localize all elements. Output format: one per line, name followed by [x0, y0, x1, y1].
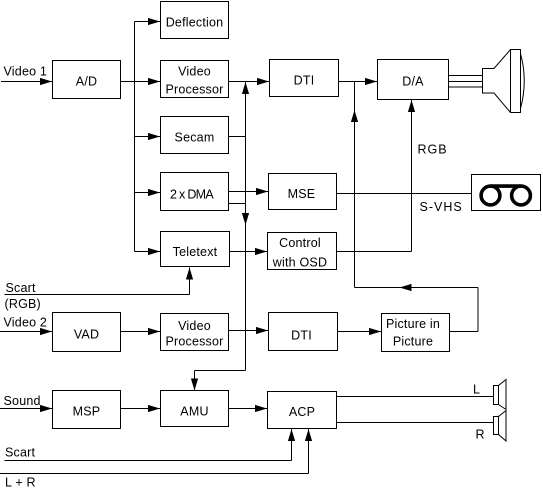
svg-text:MSE: MSE	[288, 187, 316, 201]
svg-text:RGB: RGB	[418, 143, 448, 157]
svg-text:L: L	[473, 383, 480, 397]
svg-text:Scart: Scart	[6, 281, 37, 295]
svg-text:ACP: ACP	[289, 405, 315, 419]
svg-text:Video: Video	[178, 65, 211, 79]
svg-text:Picture: Picture	[393, 335, 433, 349]
svg-text:Processor: Processor	[165, 83, 223, 97]
svg-text:Video 1: Video 1	[4, 65, 48, 79]
svg-text:L + R: L + R	[5, 476, 36, 489]
svg-text:AMU: AMU	[180, 405, 208, 419]
svg-text:Sound: Sound	[4, 394, 41, 408]
svg-text:with OSD: with OSD	[272, 256, 327, 270]
svg-text:Picture in: Picture in	[386, 317, 440, 331]
svg-text:Secam: Secam	[175, 131, 215, 145]
svg-text:Processor: Processor	[165, 335, 223, 349]
svg-text:Teletext: Teletext	[173, 245, 218, 259]
svg-text:S-VHS: S-VHS	[420, 200, 463, 214]
svg-text:Video 2: Video 2	[4, 316, 48, 330]
svg-text:A/D: A/D	[76, 75, 97, 89]
svg-text:D/A: D/A	[402, 75, 424, 89]
svg-text:DTI: DTI	[294, 74, 315, 88]
svg-text:2 x DMA: 2 x DMA	[170, 188, 214, 202]
svg-text:DTI: DTI	[291, 329, 312, 343]
svg-text:MSP: MSP	[73, 405, 101, 419]
svg-text:(RGB): (RGB)	[5, 297, 41, 311]
svg-text:R: R	[476, 428, 485, 442]
svg-text:VAD: VAD	[74, 328, 99, 342]
svg-text:Video: Video	[178, 319, 211, 333]
svg-text:Deflection: Deflection	[166, 16, 224, 30]
svg-text:Control: Control	[279, 236, 321, 250]
svg-text:Scart: Scart	[5, 446, 36, 460]
